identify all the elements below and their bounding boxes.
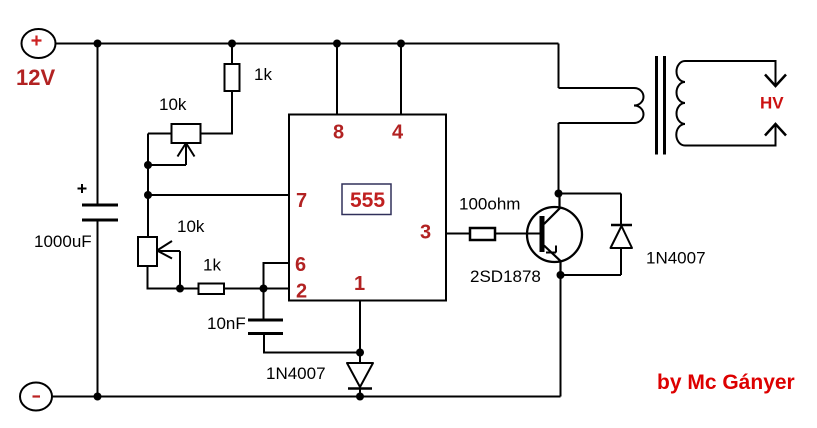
resistor R3 100ohm: [470, 228, 495, 240]
wire left branch vertical: [147, 134, 149, 238]
wire capacitor branch bottom: [97, 220, 99, 397]
terminal +12V: [22, 29, 56, 58]
svg-text:8: 8: [333, 122, 344, 144]
junction diode D1 bottom: [356, 393, 364, 401]
diode D1 1N4007: [347, 363, 373, 397]
arrow HV top: [765, 75, 786, 87]
transistor Q1 2SD1878: [527, 194, 582, 276]
IC U1 555 box: [289, 115, 446, 301]
wire bottom rail: [52, 396, 561, 398]
svg-text:1N4007: 1N4007: [646, 249, 706, 268]
wire R3 to base: [495, 233, 540, 235]
resistor R1 1k: [225, 64, 240, 91]
wire D2 top: [620, 194, 622, 226]
svg-text:555: 555: [350, 189, 385, 212]
junction pin7: [144, 191, 152, 199]
transformer T1 core: [657, 56, 665, 155]
junction pin8: [333, 40, 341, 48]
svg-text:by Mc Gányer: by Mc Gányer: [657, 371, 795, 394]
junction pin2 node: [260, 285, 268, 293]
wire P2 bottom: [148, 266, 199, 289]
junction bottom-left: [94, 393, 102, 401]
wire primary bottom: [559, 122, 635, 124]
junction pin4: [397, 40, 405, 48]
wire top rail: [55, 43, 559, 45]
svg-text:7: 7: [296, 190, 307, 212]
transformer T1 secondary winding: [676, 61, 685, 146]
junction collector: [555, 190, 563, 198]
wire pin 3: [446, 233, 470, 235]
svg-text:12V: 12V: [16, 65, 55, 90]
svg-text:1: 1: [354, 273, 365, 295]
svg-text:10k: 10k: [159, 95, 187, 114]
wire secondary top: [685, 61, 776, 86]
svg-text:1k: 1k: [203, 256, 221, 275]
svg-text:6: 6: [295, 254, 306, 276]
svg-text:2: 2: [296, 281, 307, 303]
wire pin 4: [400, 44, 402, 115]
label 555: [342, 184, 391, 215]
junction emitter: [557, 271, 565, 279]
svg-text:1k: 1k: [254, 65, 272, 84]
svg-text:100ohm: 100ohm: [459, 195, 520, 214]
svg-text:3: 3: [420, 222, 431, 244]
wire P1 wiper return: [148, 164, 186, 166]
wire R1 to pot P1: [201, 91, 233, 134]
junction 1k top: [228, 40, 236, 48]
wire R2 to pin2: [224, 288, 289, 290]
wire pin 7: [148, 194, 289, 196]
svg-text:1N4007: 1N4007: [266, 364, 326, 383]
wire C2 to diode D1: [264, 334, 360, 353]
potentiometer P2 10k: [138, 237, 180, 266]
diode D2 1N4007: [611, 225, 633, 275]
wire top rail corner down: [558, 44, 560, 89]
wire primary top: [559, 87, 635, 89]
svg-text:1000uF: 1000uF: [34, 232, 92, 251]
wire pin6 branch: [264, 263, 290, 320]
junction D1 top: [356, 349, 364, 357]
svg-text:10nF: 10nF: [207, 314, 246, 333]
potentiometer P1 10k: [172, 124, 201, 165]
wire D2 bottom: [561, 274, 622, 276]
junction P2 wiper: [176, 285, 184, 293]
capacitor C1 1000uF: [78, 184, 119, 220]
terminal minus: [20, 383, 52, 411]
svg-text:HV: HV: [760, 94, 784, 113]
svg-text:2SD1878: 2SD1878: [470, 267, 541, 286]
arrow HV bottom: [765, 124, 786, 136]
capacitor C2 10nF: [248, 320, 283, 334]
svg-text:4: 4: [392, 122, 404, 144]
wire capacitor branch top: [97, 44, 99, 206]
resistor R2 1k: [199, 284, 225, 295]
junction P1 wiper: [144, 161, 152, 169]
wire secondary bottom: [685, 124, 776, 146]
svg-text:10k: 10k: [177, 217, 205, 236]
wire pin 8: [336, 44, 338, 115]
wire primary return down: [558, 123, 560, 194]
transformer T1 primary winding: [634, 88, 644, 123]
junction top-left: [94, 40, 102, 48]
wire P2 wiper down: [179, 251, 181, 289]
wire pin 1: [359, 301, 361, 364]
wire collector to D2: [559, 193, 622, 195]
wire emitter down: [560, 275, 562, 397]
wire P1 left: [148, 133, 172, 135]
wire to R1: [231, 44, 233, 65]
